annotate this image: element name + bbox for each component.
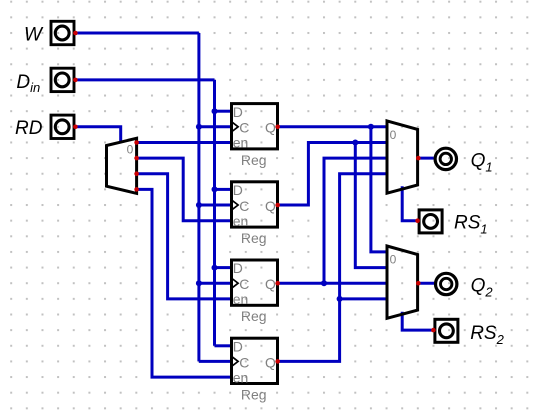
wire W pin to vertical <box>75 32 198 35</box>
junction W-reg2 C <box>196 202 202 208</box>
svg-text:0: 0 <box>127 142 134 156</box>
svg-text:en: en <box>233 213 249 229</box>
port dot RS2 output <box>431 328 436 333</box>
svg-text:D: D <box>233 104 243 120</box>
wire RS2 to mux2 select <box>402 312 433 330</box>
junction reg4 Q branch <box>337 296 343 302</box>
wire W to reg3 C <box>199 282 230 285</box>
wire reg3 Q to mux2 in2 <box>279 282 387 285</box>
wire Din to reg3 D <box>215 266 231 269</box>
svg-text:D: D <box>233 338 243 354</box>
port dot demux out1 <box>134 156 139 161</box>
wire RD to demux select <box>75 127 120 143</box>
svg-text:Q: Q <box>265 120 276 136</box>
wire demux out2 to reg3 en <box>137 174 230 299</box>
register Reg4 <box>232 338 278 402</box>
wire reg4 Q branch to mux2 in3 <box>340 297 387 300</box>
wire Din to reg4 D <box>215 344 231 347</box>
port dot demux out3 <box>134 187 139 192</box>
svg-text:C: C <box>239 120 249 136</box>
svg-text:Q: Q <box>265 276 276 292</box>
wire demux out3 to reg4 en <box>137 189 230 377</box>
svg-text:0: 0 <box>390 128 397 142</box>
svg-text:0: 0 <box>390 253 397 267</box>
svg-text:D: D <box>233 260 243 276</box>
junction Din-reg1 D <box>212 108 218 114</box>
junction W-reg3 C <box>196 280 202 286</box>
input pin RS1 <box>419 210 442 233</box>
wire reg2 Q branch to mux2 in1 <box>355 143 387 268</box>
junction Din-reg3 D <box>212 265 218 271</box>
svg-text:Reg: Reg <box>241 230 267 246</box>
wire reg4 Q to mux1 in3 <box>279 174 387 362</box>
register Reg2 <box>232 182 278 246</box>
port dot Reg2 Q <box>275 203 280 208</box>
input pin RS2 <box>435 319 458 342</box>
wire Din vertical (data bus) <box>213 80 216 346</box>
svg-text:D: D <box>233 182 243 198</box>
svg-text:en: en <box>233 135 249 151</box>
svg-text:Q: Q <box>265 354 276 370</box>
input pin W <box>51 21 74 44</box>
wire reg1 Q branch to mux2 in0 <box>371 127 387 252</box>
wire reg2 Q to mux1 in1 <box>279 143 387 206</box>
input pin Din <box>51 68 74 91</box>
wire reg3 Q branch to mux1 in2 <box>324 158 387 283</box>
port dot W output <box>73 31 78 36</box>
wire W vertical (clock bus) <box>197 33 200 361</box>
mux U1 (Q1 mux) <box>387 121 418 193</box>
wire Din pin to vertical <box>75 78 214 81</box>
mux U2 (Q2 mux) <box>387 246 418 318</box>
port dot demux out0 <box>134 140 139 145</box>
port dot Reg1 Q <box>275 125 280 130</box>
port dot mux2 out <box>416 281 421 286</box>
wire W to reg2 C <box>199 204 230 207</box>
svg-text:W: W <box>24 25 44 46</box>
junction reg2 Q branch <box>352 140 358 146</box>
wire W to reg1 C <box>199 125 230 128</box>
output pin Q1 <box>435 148 456 169</box>
svg-text:C: C <box>239 354 249 370</box>
wire W to reg4 C <box>199 360 230 363</box>
port dot RS1 output <box>415 218 420 223</box>
svg-text:en: en <box>233 369 249 385</box>
wire Din to reg1 D <box>215 110 231 113</box>
port dot Reg3 Q <box>275 281 280 286</box>
port dot Din output <box>73 78 78 83</box>
demux (register select decoder) <box>107 138 137 193</box>
output pin Q2 <box>436 273 457 294</box>
svg-text:RD: RD <box>15 118 43 139</box>
svg-text:C: C <box>239 198 249 214</box>
port dot demux out2 <box>134 171 139 176</box>
svg-text:Reg: Reg <box>241 308 267 324</box>
svg-text:en: en <box>233 291 249 307</box>
svg-text:Q: Q <box>265 198 276 214</box>
register Reg3 <box>232 260 278 324</box>
svg-text:C: C <box>239 276 249 292</box>
port dot mux1 out <box>416 156 421 161</box>
junction reg1 Q branch <box>368 124 374 130</box>
input pin RD <box>51 115 74 138</box>
junction reg3 Q branch <box>321 280 327 286</box>
wire mux2 out to Q2 <box>418 282 434 285</box>
wire Din to reg2 D <box>215 188 231 191</box>
register Reg1 <box>232 104 278 168</box>
wire reg1 Q to mux1 in0 <box>279 125 387 128</box>
wire RS1 to mux1 select <box>402 186 417 220</box>
junction W-reg1 C <box>196 124 202 130</box>
port dot RD output <box>73 125 78 130</box>
wire mux1 out to Q1 <box>418 157 434 160</box>
junction Din-reg2 D <box>212 186 218 192</box>
wire demux out1 to reg2 en <box>137 158 230 221</box>
svg-text:Reg: Reg <box>241 152 267 168</box>
wire demux out0 to reg1 en <box>137 141 230 144</box>
port dot Reg4 Q <box>275 359 280 364</box>
svg-text:Reg: Reg <box>241 386 267 402</box>
